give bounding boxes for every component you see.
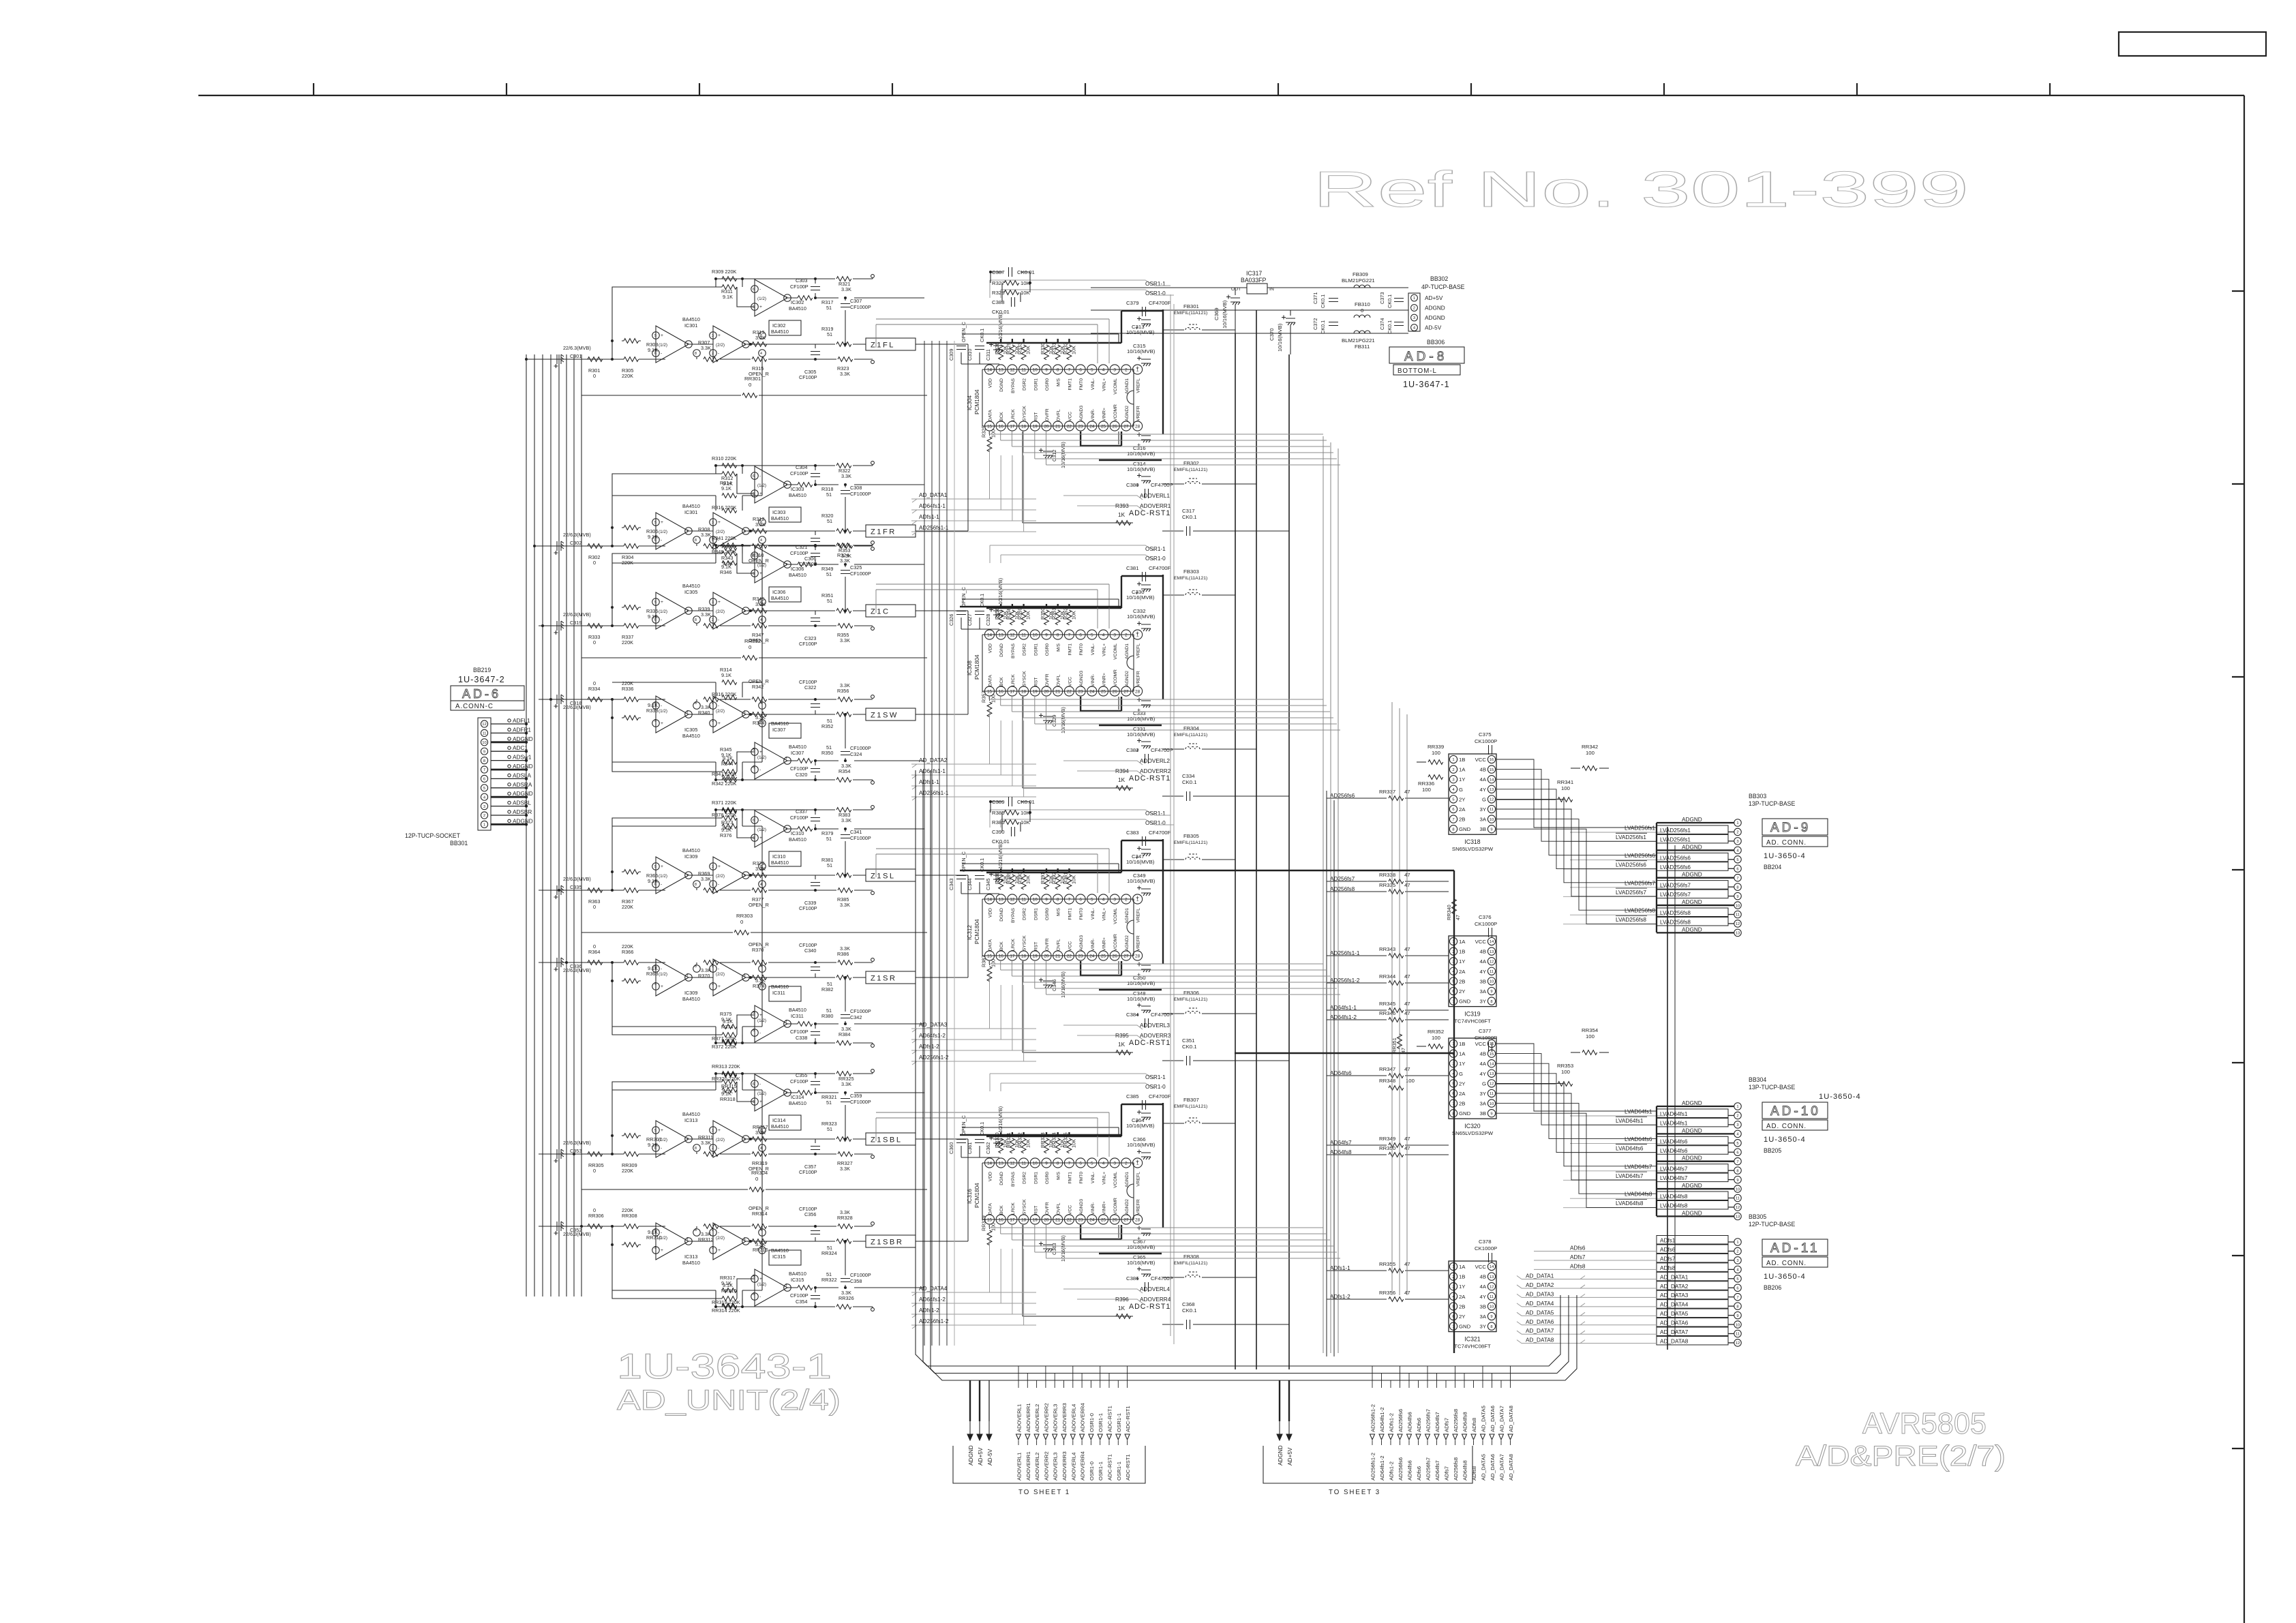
svg-text:RR308: RR308 — [622, 1213, 637, 1219]
svg-text:2: 2 — [712, 965, 714, 969]
resistor R342 OPEN_R — [749, 678, 769, 701]
svg-text:3.3K: 3.3K — [701, 611, 711, 618]
svg-text:AD_DATA6: AD_DATA6 — [1490, 1406, 1496, 1432]
svg-text:R342 220K: R342 220K — [712, 780, 737, 787]
resistor R329 10K (pull) — [1006, 339, 1020, 360]
svg-text:-: - — [759, 553, 761, 558]
svg-text:IC311: IC311 — [791, 1013, 804, 1019]
resistor RR337 47 (AD256fs6 feed) — [1327, 789, 1449, 800]
pin 23 AGND3 of IC316 — [1076, 1199, 1085, 1224]
svg-text:AD256fs1-1: AD256fs1-1 — [919, 790, 949, 796]
pin 4 ADGND — [1657, 844, 1741, 853]
pin 27 AGND2 of IC312 — [1121, 935, 1131, 960]
resistor R342 220K (feedback) — [712, 778, 737, 787]
svg-text:ADSw1: ADSw1 — [513, 755, 532, 761]
svg-text:IC301: IC301 — [684, 322, 697, 329]
svg-text:EMIFIL(11A121): EMIFIL(11A121) — [1174, 1104, 1207, 1109]
svg-text:1Y: 1Y — [1459, 1284, 1465, 1290]
svg-text:C302: C302 — [570, 540, 581, 546]
wire zone row — [746, 875, 866, 876]
svg-text:3: 3 — [1113, 633, 1116, 638]
svg-text:BA4510: BA4510 — [771, 515, 789, 521]
pin 12 G of IC318 — [1482, 795, 1496, 803]
svg-text:LVAD64fs7: LVAD64fs7 — [1616, 1173, 1644, 1179]
wire channel vertical drops to trunk — [954, 341, 955, 1346]
wire right power (bold) — [1162, 839, 1164, 964]
svg-text:CF1000P: CF1000P — [850, 304, 871, 310]
pin 6 LVAD256fs6 — [1657, 862, 1741, 873]
capacitor hatched (bottom right) — [1137, 962, 1151, 979]
svg-text:100: 100 — [1561, 785, 1570, 791]
svg-text:2: 2 — [1736, 831, 1738, 835]
svg-text:AD256fs1-2: AD256fs1-2 — [1370, 1404, 1376, 1432]
terminal (bottom) — [871, 627, 875, 631]
svg-text:0: 0 — [593, 943, 596, 950]
svg-text:LVAD256fs7: LVAD256fs7 — [1660, 892, 1691, 898]
resistor RR314 220K (feedback) — [712, 1305, 740, 1314]
svg-text:ADOVERL1: ADOVERL1 — [1016, 1453, 1023, 1481]
svg-text:21: 21 — [1055, 690, 1061, 695]
pin 19 RST of IC316 — [1030, 1206, 1040, 1224]
resistor RR355 47 (ADfs1-1 feed) — [1327, 1261, 1449, 1273]
svg-text:FMT1: FMT1 — [1068, 1172, 1072, 1184]
pin 22 VCC of IC304 — [1064, 412, 1074, 431]
node OSR1-1 (wire) — [990, 545, 1166, 563]
node ADfs1-1 — [911, 779, 1036, 789]
pin 14 VDD of IC312 — [984, 894, 994, 917]
svg-text:BA4510: BA4510 — [771, 1123, 789, 1129]
wire AD+5V rail (vertical) — [1235, 333, 1236, 1369]
svg-text:3: 3 — [712, 521, 714, 525]
svg-text:10/16(MVB): 10/16(MVB) — [1126, 859, 1155, 865]
node AD_DATA3 (feed) — [1517, 1291, 1657, 1297]
svg-text:+: + — [661, 1248, 663, 1253]
module box AD-11 — [1762, 1239, 1828, 1256]
resistor R345 9.1K (lower fb) — [720, 746, 737, 764]
svg-text:10/16(MVB): 10/16(MVB) — [1277, 323, 1283, 352]
ferrite bead FB307 EMIFIL(11A121) — [1163, 1097, 1220, 1123]
svg-text:+: + — [718, 721, 721, 726]
svg-text:2A: 2A — [1459, 806, 1466, 813]
pin 1 ADGND — [1657, 1100, 1741, 1110]
svg-text:AGND1: AGND1 — [1125, 908, 1130, 924]
svg-text:ADGND: ADGND — [1682, 1100, 1702, 1106]
wire data bus verticals (mid-right) — [1323, 436, 1338, 1353]
pin 2 AGND1 of IC308 — [1121, 630, 1131, 659]
resistor R363 0 — [588, 888, 603, 910]
pin 4 G of IC318 — [1449, 785, 1463, 793]
svg-text:VCOMR: VCOMR — [1113, 404, 1118, 421]
wire ADC output buses to right — [989, 431, 1340, 1258]
node Z1SW (zone label) — [866, 708, 916, 721]
ferrite bead FB310 0 — [1354, 301, 1370, 318]
svg-text:2: 2 — [1452, 768, 1454, 772]
capacitor C301 (input 22/6.3MVB) — [554, 345, 591, 368]
node Z1FL (zone label) — [866, 338, 916, 350]
pin 7 ADGND — [1657, 1155, 1741, 1165]
svg-text:5: 5 — [654, 521, 656, 525]
svg-text:8: 8 — [695, 1147, 697, 1151]
svg-text:CF1000P: CF1000P — [850, 1272, 871, 1278]
wire VCC rail (bold) — [986, 872, 1121, 873]
resistor R301 0 — [588, 357, 603, 379]
svg-text:1: 1 — [744, 874, 746, 878]
svg-text:AD-9: AD-9 — [1770, 821, 1811, 835]
svg-text:VCOMR: VCOMR — [1113, 1198, 1118, 1215]
pin 25 VINR+ of IC316 — [1098, 1201, 1108, 1224]
svg-text:12: 12 — [482, 723, 486, 727]
svg-text:3: 3 — [1113, 368, 1116, 373]
svg-text:OSR0: OSR0 — [1045, 908, 1050, 920]
svg-text:BA4510: BA4510 — [771, 329, 789, 335]
svg-text:ADOVERL1: ADOVERL1 — [1140, 493, 1170, 499]
node Z1SBL (zone label) — [866, 1133, 916, 1145]
svg-text:21: 21 — [1055, 954, 1061, 959]
svg-text:10: 10 — [1490, 818, 1494, 822]
border tick top 8 — [1663, 83, 1665, 95]
svg-text:12: 12 — [1490, 960, 1494, 964]
svg-text:12: 12 — [1010, 898, 1015, 902]
svg-text:CF4700P: CF4700P — [1151, 1275, 1173, 1281]
svg-text:ADC-RST1: ADC-RST1 — [1125, 1406, 1131, 1432]
svg-text:AD_DATA2: AD_DATA2 — [919, 757, 948, 763]
svg-text:-: - — [759, 474, 761, 479]
svg-text:7: 7 — [1068, 368, 1071, 373]
resistor RR317 9.1K (lower fb) — [720, 1275, 737, 1292]
capacitor C355 CF100P — [790, 1072, 820, 1085]
pin 6 ADSLA of BB301 — [481, 772, 531, 782]
svg-text:OSR1-0: OSR1-0 — [1089, 1413, 1095, 1432]
border tick right 2 — [2232, 483, 2244, 485]
svg-text:6: 6 — [1079, 633, 1082, 638]
svg-text:ADfs1-2: ADfs1-2 — [919, 1044, 939, 1050]
svg-text:OPEN_R: OPEN_R — [749, 1205, 769, 1211]
svg-text:DSR2: DSR2 — [1023, 908, 1027, 920]
resistor RR302 0 (link) — [581, 638, 927, 660]
svg-text:5: 5 — [1452, 798, 1454, 802]
op-amp IC301 (1/2) BA4510 — [652, 316, 701, 363]
svg-text:CK0.1: CK0.1 — [1182, 779, 1197, 785]
resistor RR342 100 — [1571, 744, 1609, 770]
svg-text:51: 51 — [827, 718, 832, 724]
svg-text:FB303: FB303 — [1183, 568, 1199, 575]
svg-text:VCOMR: VCOMR — [1113, 669, 1118, 686]
resistor R352 10K (pull) — [1062, 604, 1076, 625]
capacitor C360 (OPEN_C) — [948, 1115, 967, 1154]
svg-text:LVAD256fs6: LVAD256fs6 — [1660, 864, 1691, 870]
pin 12 4A of IC319 — [1480, 958, 1496, 965]
svg-text:(1/2): (1/2) — [659, 874, 667, 879]
svg-text:VINL-: VINL- — [1091, 908, 1096, 920]
svg-text:R309 220K: R309 220K — [712, 269, 737, 275]
svg-text:BA4510: BA4510 — [771, 595, 789, 601]
capacitor C361 CK0.1 — [967, 1122, 985, 1154]
svg-text:17: 17 — [1010, 954, 1015, 959]
svg-text:OVFR: OVFR — [1045, 938, 1050, 951]
wire top output network — [742, 810, 924, 875]
resistor RR325 3.3K (top out) — [836, 1072, 854, 1087]
svg-text:CF100P: CF100P — [790, 284, 809, 290]
node ADC-RST1 — [1023, 961, 1170, 1052]
node OSR1-1 (wire) — [990, 280, 1166, 298]
capacitor C302 (input 22/6.3MVB) — [554, 532, 591, 555]
svg-text:6: 6 — [1736, 867, 1738, 871]
node ADOVERR2 — [1077, 771, 1143, 775]
svg-text:5: 5 — [654, 1129, 656, 1133]
pin 18 SYSCK of IC312 — [1019, 935, 1029, 960]
svg-text:14: 14 — [1490, 940, 1494, 944]
capacitor C310 CK0.1 — [967, 329, 985, 361]
svg-text:10/16(MVB): 10/16(MVB) — [1126, 329, 1155, 335]
svg-text:13P-TUCP-BASE: 13P-TUCP-BASE — [1749, 1084, 1796, 1091]
resistor R323 3.3K (bottom) — [837, 357, 853, 377]
svg-text:9: 9 — [1045, 368, 1048, 373]
svg-text:C373: C373 — [1379, 292, 1385, 304]
wire right power (bold) — [1162, 309, 1164, 434]
svg-text:26: 26 — [1113, 690, 1118, 695]
svg-text:R327: R327 — [992, 280, 1005, 286]
svg-text:TO SHEET 3: TO SHEET 3 — [1329, 1489, 1380, 1496]
svg-text:ADfs7: ADfs7 — [1570, 1254, 1586, 1260]
svg-text:AD64fs6: AD64fs6 — [1407, 1412, 1413, 1432]
svg-text:3B: 3B — [1480, 978, 1486, 984]
node ADC-RST1 — [1023, 431, 1170, 523]
svg-text:C359: C359 — [850, 1093, 862, 1099]
wire lower feedback — [612, 811, 762, 965]
svg-text:14: 14 — [1490, 1265, 1494, 1269]
resistor R357 100 (vert) — [981, 691, 997, 717]
node LVAD256fs1 (feed) — [1570, 825, 1665, 833]
node ADfs6 (feed) — [1534, 1245, 1657, 1252]
svg-text:R344: R344 — [753, 720, 764, 726]
svg-text:OPEN_C: OPEN_C — [961, 322, 967, 342]
pin 15 DATA of IC316 — [984, 1203, 994, 1224]
svg-text:VINR+: VINR+ — [1102, 408, 1107, 421]
resistor R370 OPEN_R — [749, 941, 769, 965]
pin 9 3B of IC318 — [1480, 825, 1496, 833]
terminal (bottom) — [871, 892, 875, 895]
resistor R340 3.3K — [698, 697, 719, 716]
svg-text:IC310: IC310 — [791, 830, 804, 836]
resistor RR326 3.3K (top out) — [836, 1290, 854, 1309]
svg-text:ADOVERL2: ADOVERL2 — [1034, 1453, 1040, 1481]
pin 27 AGND2 of IC308 — [1121, 671, 1131, 696]
svg-text:AD-10: AD-10 — [1770, 1104, 1821, 1119]
svg-text:FMT1: FMT1 — [1068, 378, 1072, 391]
svg-text:23: 23 — [1078, 1218, 1084, 1223]
svg-text:ADOVERL4: ADOVERL4 — [1140, 1286, 1170, 1292]
svg-text:RR350: RR350 — [1379, 1145, 1395, 1151]
pin 10 ADGND of BB301 — [481, 736, 532, 746]
resistor R306 9.1K — [624, 526, 658, 540]
svg-text:C327: C327 — [967, 614, 973, 626]
svg-text:7: 7 — [686, 1237, 689, 1241]
svg-text:IC305: IC305 — [684, 727, 697, 733]
resistor R349 51 — [798, 562, 833, 577]
svg-text:CF100P: CF100P — [799, 1169, 817, 1175]
node LVAD64fs7 (feed) — [1570, 1164, 1665, 1171]
svg-text:LVAD256fs8: LVAD256fs8 — [1616, 917, 1646, 923]
svg-text:LVAD64fs8: LVAD64fs8 — [1625, 1192, 1652, 1198]
node LVAD256fs7 (feed inv) — [1563, 888, 1656, 896]
wire bottom rail — [720, 699, 873, 714]
svg-text:R374: R374 — [753, 983, 764, 989]
IC IC311 boxed label — [769, 984, 801, 1001]
svg-text:3Y: 3Y — [1480, 1324, 1486, 1330]
svg-text:AD64fs6: AD64fs6 — [1407, 1460, 1413, 1481]
resistor RR344 47 (AD256fs1-2 feed) — [1327, 973, 1449, 985]
svg-text:1A: 1A — [1459, 1264, 1466, 1270]
svg-text:10: 10 — [1736, 1187, 1740, 1192]
svg-text:5: 5 — [1091, 633, 1093, 638]
pin 5 LVAD64fs6 — [1657, 1136, 1741, 1147]
op-amp IC309 (1/2) BA4510 — [652, 847, 701, 894]
svg-text:+: + — [661, 1128, 663, 1133]
svg-text:10/16(MVB): 10/16(MVB) — [1127, 1260, 1155, 1266]
node AD_DATA8 (feed) — [1517, 1337, 1657, 1344]
svg-text:R340: R340 — [698, 710, 710, 716]
svg-text:ADOVERR1: ADOVERR1 — [1140, 503, 1171, 509]
svg-text:LVAD256fs1: LVAD256fs1 — [1660, 836, 1691, 843]
svg-text:R393: R393 — [1115, 503, 1129, 509]
resistor RR356 47 (ADfs1-2 feed) — [1327, 1290, 1449, 1301]
svg-text:AD_DATA6: AD_DATA6 — [1490, 1454, 1496, 1481]
svg-text:PCM1804: PCM1804 — [974, 654, 980, 680]
svg-text:IC306: IC306 — [772, 589, 785, 595]
svg-text:5: 5 — [753, 572, 755, 576]
pin 11 DSR2 of IC316 — [1019, 1158, 1029, 1184]
wire ADC analog input taps (top side) — [876, 319, 1109, 1157]
svg-text:ADC-RST1: ADC-RST1 — [1107, 1406, 1113, 1432]
svg-text:OPEN_C: OPEN_C — [961, 851, 967, 872]
module box AD-10 — [1762, 1102, 1828, 1119]
resistor R386 3.3K (bottom) — [837, 945, 853, 965]
pin 9 ADC1 of BB301 — [481, 745, 528, 755]
resistor R314 9.1K (lower fb) — [720, 667, 737, 684]
border tick right 4 — [2232, 869, 2244, 870]
svg-text:10/16(MVB): 10/16(MVB) — [1127, 1244, 1155, 1250]
svg-text:4Y: 4Y — [1480, 1294, 1486, 1300]
svg-text:1K: 1K — [1118, 512, 1126, 518]
svg-text:11: 11 — [1021, 898, 1026, 902]
svg-text:C335: C335 — [570, 884, 581, 890]
pin 17 LRCK of IC304 — [1008, 409, 1017, 431]
resistor RR307 9.1K — [624, 1134, 662, 1148]
svg-text:ADSBL: ADSBL — [513, 800, 531, 806]
svg-text:C361: C361 — [967, 1142, 973, 1154]
pin 7 FMT1 of IC316 — [1064, 1158, 1074, 1184]
border tick top 7 — [1470, 83, 1472, 95]
svg-text:18: 18 — [1021, 690, 1027, 695]
svg-text:RR336: RR336 — [1418, 780, 1434, 787]
svg-text:8: 8 — [1452, 828, 1454, 832]
svg-text:R372 220K: R372 220K — [712, 1044, 737, 1050]
svg-text:7: 7 — [785, 483, 787, 487]
svg-text:+: + — [1136, 894, 1139, 901]
wire feedback — [612, 810, 755, 890]
pin 4 VINL+ of IC316 — [1098, 1158, 1108, 1185]
terminal (top) — [871, 1044, 875, 1048]
svg-text:7: 7 — [1068, 633, 1071, 638]
pin 1 1A of IC321 — [1449, 1262, 1466, 1270]
svg-text:RR339: RR339 — [1428, 744, 1444, 750]
svg-text:BB304: BB304 — [1749, 1076, 1766, 1083]
pin 1 VREFL of IC316 — [1133, 1158, 1143, 1187]
svg-text:BYPAS: BYPAS — [1011, 907, 1016, 922]
capacitor C311 10/16(MVB) — [985, 313, 1003, 361]
svg-text:VREFL: VREFL — [1136, 643, 1141, 658]
resistor R356 3.3K (bottom) — [837, 682, 853, 701]
pin 20 OVFR of IC308 — [1042, 673, 1051, 696]
wire ADGND arrow (sheet1) — [967, 1380, 974, 1466]
svg-text:21: 21 — [1055, 1218, 1061, 1223]
svg-text:LVAD256fs7: LVAD256fs7 — [1625, 880, 1655, 886]
svg-text:R338: R338 — [646, 708, 658, 714]
pin 11 ADFR1 of BB301 — [481, 727, 531, 736]
border tick right 1 — [2232, 290, 2244, 292]
svg-text:ADfs7: ADfs7 — [1444, 1466, 1450, 1481]
svg-text:IC313: IC313 — [684, 1117, 697, 1123]
wire supply rail thin — [962, 598, 1119, 600]
capacitor C363 10/16(MVB) (bottom) — [1039, 1235, 1066, 1262]
svg-text:OVFR: OVFR — [1045, 1202, 1050, 1215]
pin 9 3B of IC320 — [1480, 1110, 1496, 1117]
node LVAD64fs6 (feed) — [1570, 1136, 1665, 1144]
op-amp IC310 (2/2) BA4510 — [710, 857, 766, 894]
svg-text:PCM1804: PCM1804 — [974, 389, 980, 414]
IC IC321 label — [1454, 1336, 1491, 1350]
svg-text:10: 10 — [1490, 980, 1494, 984]
svg-text:BA4510: BA4510 — [789, 492, 806, 498]
capacitor C357 CF100P (bottom) — [799, 1147, 820, 1176]
svg-text:LVAD256fs6: LVAD256fs6 — [1625, 853, 1655, 859]
resistor R328 10K — [992, 290, 1031, 296]
pin 7 FMT1 of IC308 — [1064, 630, 1074, 656]
pin 1 VREFL of IC312 — [1133, 894, 1143, 923]
svg-text:R310 220K: R310 220K — [712, 455, 737, 461]
pin 24 VINR- of IC304 — [1087, 409, 1097, 431]
svg-text:AD256fs1-2: AD256fs1-2 — [1370, 1453, 1376, 1481]
svg-text:DSR2: DSR2 — [1023, 643, 1027, 656]
svg-text:10K: 10K — [1025, 611, 1031, 620]
svg-text:RR305: RR305 — [588, 1162, 604, 1168]
pin 18 SYSCK of IC304 — [1019, 406, 1029, 431]
capacitor hatched + (right top) — [1135, 1110, 1151, 1125]
svg-text:C334: C334 — [1182, 773, 1195, 779]
wire AGND3 bottom (bold) — [1081, 1225, 1121, 1239]
svg-text:-: - — [718, 1146, 719, 1151]
node AD64fs1-1 — [911, 503, 1036, 513]
resistor R359 10K (pull) — [1017, 604, 1031, 625]
svg-text:1: 1 — [1736, 1241, 1738, 1245]
svg-text:R325: R325 — [981, 426, 987, 438]
capacitor C328 10/16(MVB) — [985, 578, 1003, 626]
pin 13 4Y of IC318 — [1480, 785, 1496, 793]
svg-text:2A: 2A — [1459, 1294, 1466, 1300]
IC IC306 boxed label — [769, 587, 801, 602]
svg-text:+: + — [1136, 365, 1139, 371]
resistor RR340 47 (vert) — [1446, 899, 1461, 920]
svg-text:9.1K: 9.1K — [723, 755, 733, 761]
pin 14 VDD of IC304 — [984, 365, 994, 388]
svg-text:8: 8 — [1736, 885, 1738, 890]
resistor RR319 OPEN_R — [749, 1152, 769, 1172]
connector BB305 header labels — [1749, 1213, 1796, 1228]
resistor RR350 47 (AD64fs8 feed) — [1327, 1145, 1449, 1157]
wire feedback — [612, 279, 755, 359]
pin 8 GND of IC318 — [1449, 825, 1470, 833]
svg-text:VCC: VCC — [1068, 677, 1072, 686]
